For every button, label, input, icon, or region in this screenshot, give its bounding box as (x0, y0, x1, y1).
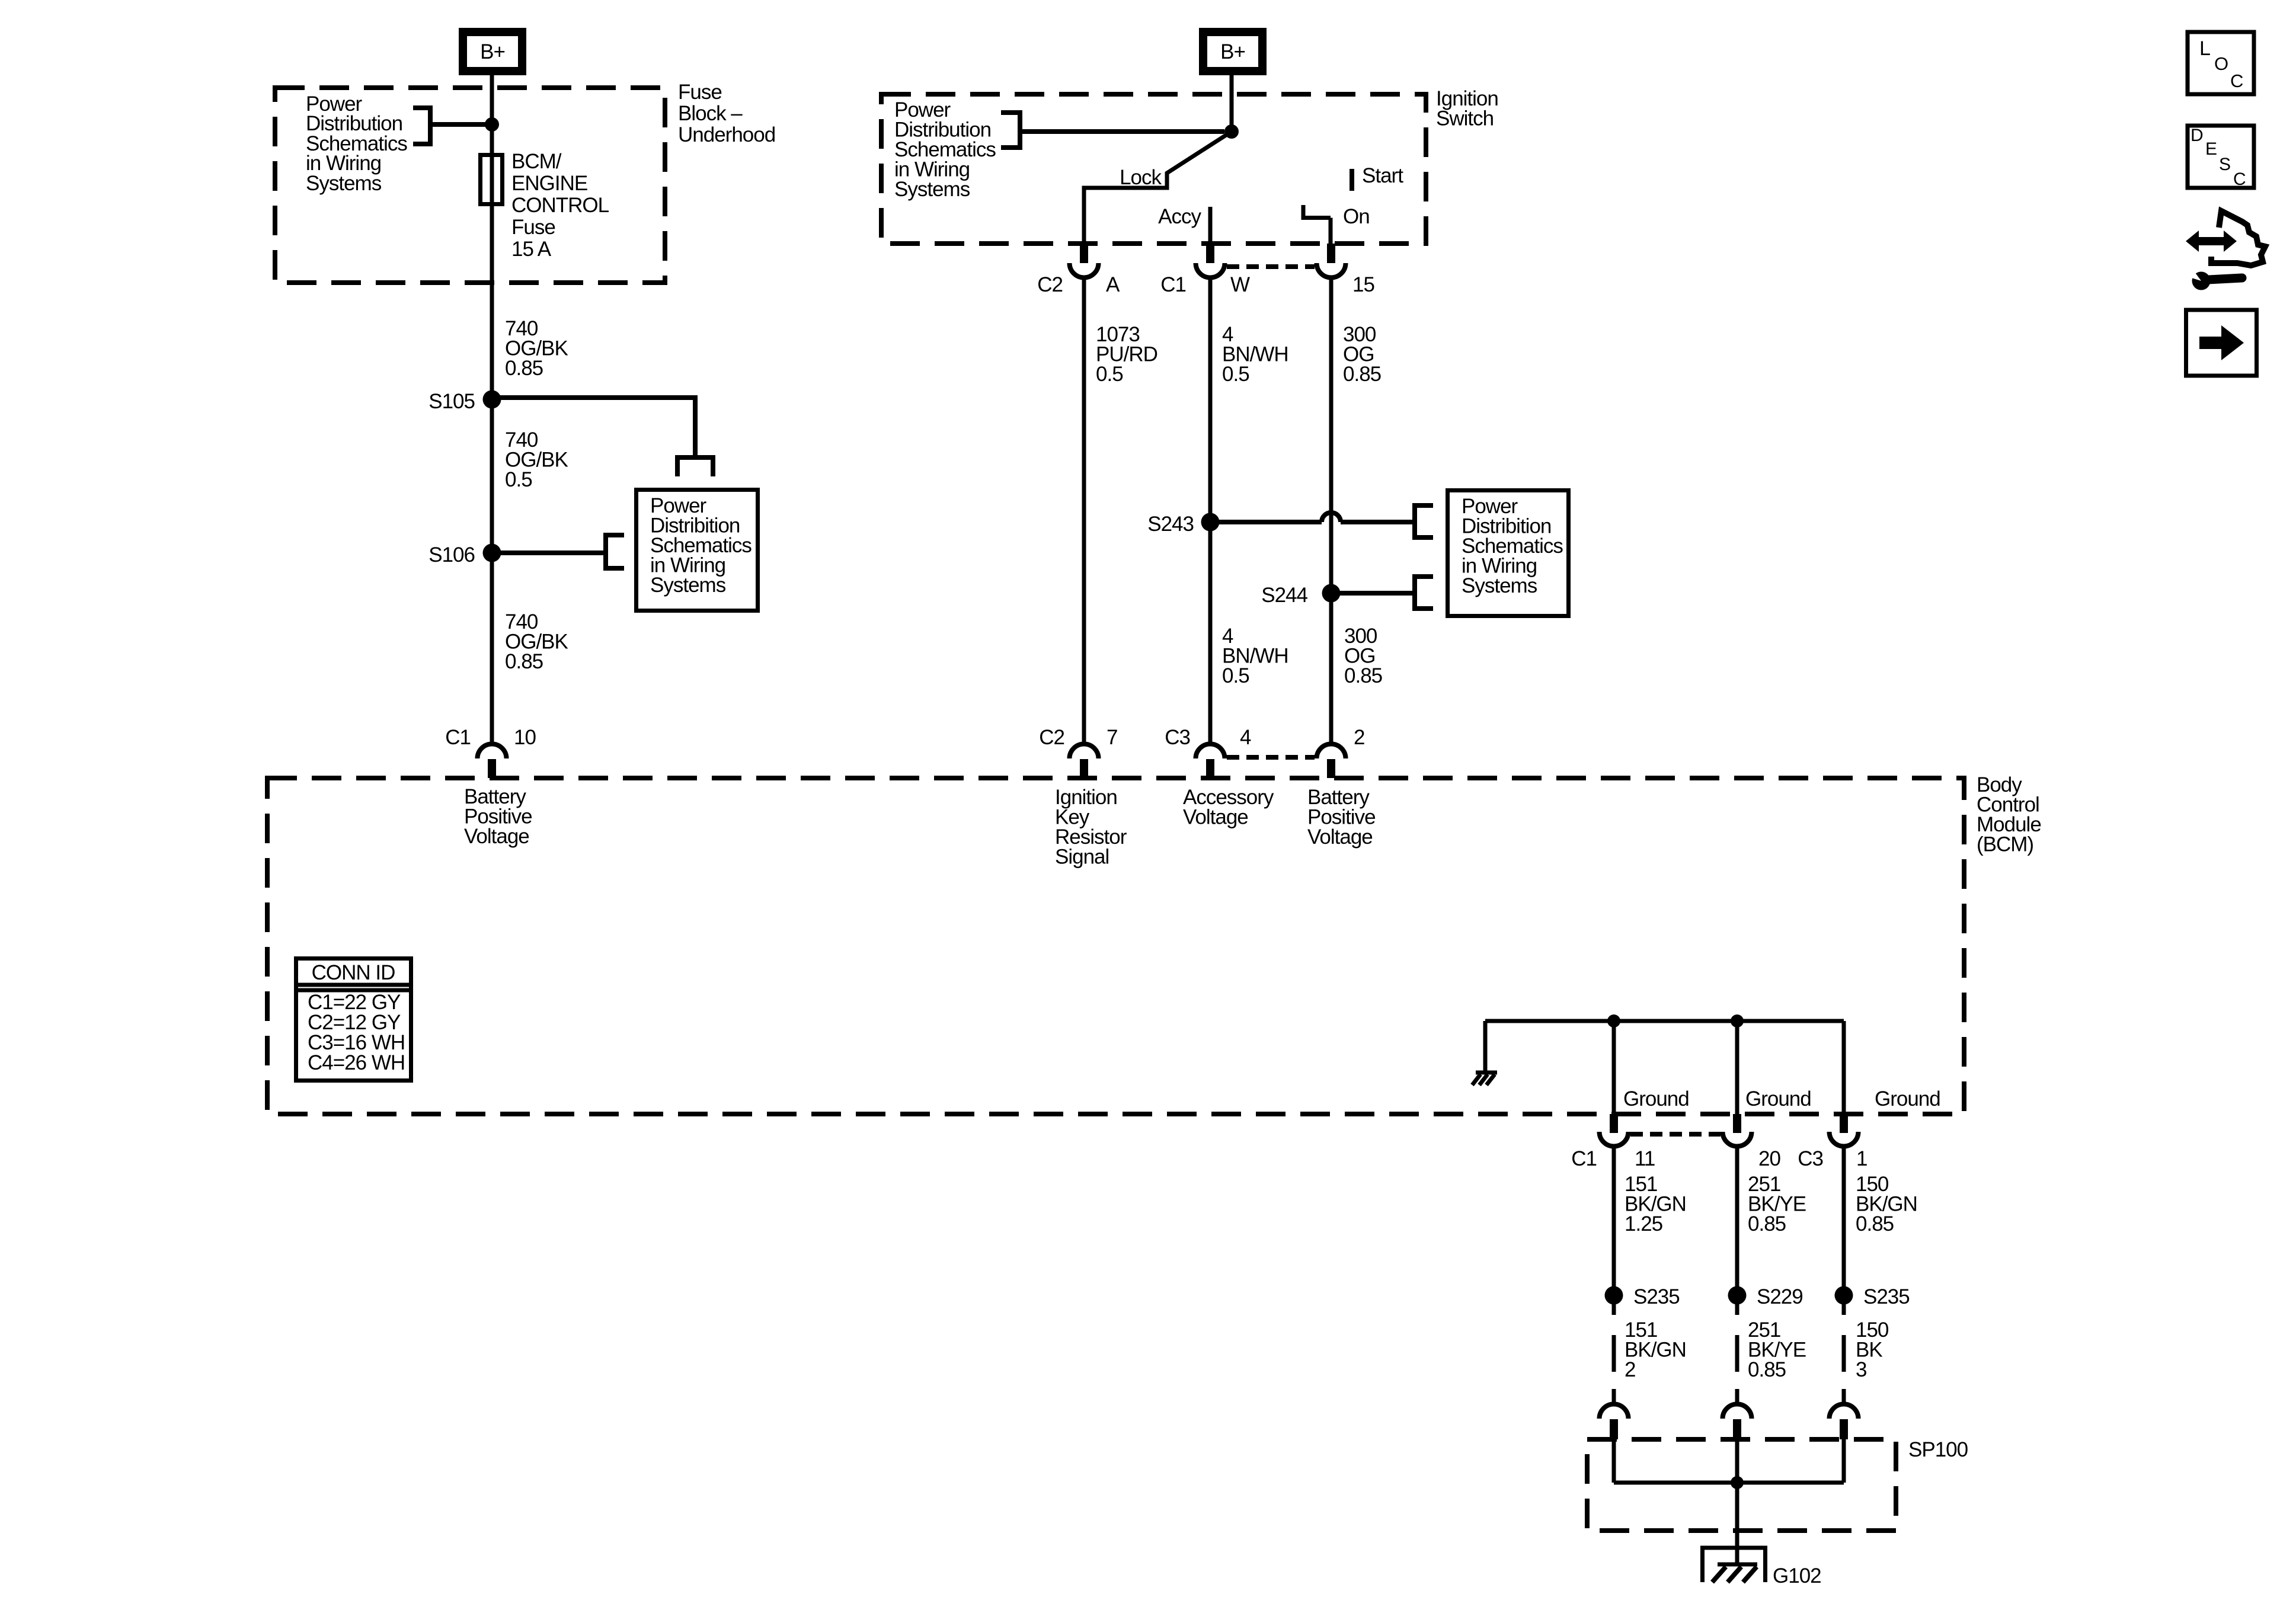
fuse BCM/ENGINE CONTROL 15 A (481, 155, 503, 204)
wire: S105 branch to power distribution (492, 398, 715, 476)
svg-text:0.5: 0.5 (505, 468, 532, 491)
svg-text:0.5: 0.5 (1096, 363, 1123, 386)
contact Accy (1208, 207, 1213, 244)
svg-text:1: 1 (1856, 1147, 1867, 1170)
svg-text:1.25: 1.25 (1625, 1212, 1662, 1235)
label Accessory Voltage (1183, 786, 1274, 829)
icon LOC box (2188, 32, 2254, 94)
wire label 4 BN/WH 0.5 (lower) (1222, 625, 1288, 687)
svg-text:On: On (1343, 205, 1370, 228)
svg-text:Systems: Systems (650, 574, 726, 597)
svg-text:S243: S243 (1147, 513, 1194, 536)
connector C3 pin 4 (BCM entry) (1165, 726, 1251, 778)
wire: S229 to SP100 (broken) (1735, 1304, 1739, 1404)
connector pin 2 (BCM entry) (1317, 726, 1365, 778)
wire label 151 BK/GN 2 (1625, 1318, 1686, 1381)
connector C1 pin W (ignition exit) (1160, 244, 1250, 296)
icon DESC box (2188, 126, 2254, 189)
wire: ground 1 (1612, 1021, 1616, 1114)
label Fuse Block - Underhood (678, 81, 775, 146)
svg-text:Underhood: Underhood (678, 123, 775, 146)
splice S229 (1728, 1286, 1747, 1305)
wire: S243 to power distribution (with hop) (1210, 503, 1433, 540)
wire label 150 BK/GN 0.85 (1856, 1173, 1917, 1235)
svg-text:B+: B+ (1220, 40, 1245, 63)
node: SP100 junction (1731, 1476, 1744, 1489)
svg-text:4: 4 (1240, 726, 1251, 749)
wire: S106 branch (492, 533, 624, 571)
svg-text:S229: S229 (1757, 1285, 1803, 1308)
svg-text:SP100: SP100 (1908, 1438, 1968, 1461)
svg-text:C2: C2 (1039, 726, 1064, 749)
svg-text:Systems: Systems (894, 178, 970, 201)
connector C2 pin A (ignition exit) (1037, 244, 1120, 296)
wire: BCM internal ground bus (1485, 1021, 1844, 1114)
svg-text:Accy: Accy (1158, 205, 1201, 228)
svg-text:B+: B+ (480, 40, 505, 63)
dashed connector link (ignition) (1227, 264, 1315, 269)
svg-text:20: 20 (1758, 1147, 1780, 1170)
wire label 300 OG 0.85 (lower) (1344, 625, 1382, 687)
wire: S235 to SP100 (broken) (1612, 1304, 1616, 1404)
svg-text:Voltage: Voltage (464, 825, 529, 848)
node: junction above fuse (485, 117, 499, 132)
svg-text:Switch: Switch (1436, 107, 1494, 130)
connector C1 pin 10 (BCM entry) (445, 726, 536, 778)
svg-text:S: S (2219, 155, 2231, 174)
svg-text:C3: C3 (1165, 726, 1190, 749)
svg-text:O: O (2214, 53, 2228, 74)
wire label 740 OG/BK 0.5 (505, 428, 568, 491)
svg-text:Ground: Ground (1623, 1087, 1689, 1110)
connector pin 15 (ignition exit) (1317, 244, 1374, 296)
svg-text:2: 2 (1354, 726, 1364, 749)
box: Power Distribition Schematics (left) (637, 490, 758, 611)
wire: B+ to BCM C1 pin 10 (490, 75, 494, 744)
svg-text:A: A (1106, 273, 1120, 296)
svg-text:Voltage: Voltage (1307, 825, 1373, 849)
connector SP100 entry 3 (1830, 1404, 1859, 1440)
connector C1 pin 11 (BCM exit) (1571, 1114, 1655, 1170)
splice S106 (483, 544, 501, 562)
svg-text:C4=26 WH: C4=26 WH (308, 1051, 405, 1074)
svg-text:W: W (1230, 273, 1250, 296)
svg-text:11: 11 (1635, 1147, 1655, 1170)
wire: S235r to SP100 (broken) (1842, 1304, 1846, 1404)
svg-text:Ground: Ground (1745, 1087, 1811, 1110)
wire: ground 2 (1735, 1021, 1739, 1114)
svg-text:(BCM): (BCM) (1977, 833, 2033, 856)
connector C2 pin 7 (BCM entry) (1039, 726, 1117, 778)
label Battery Positive Voltage (left) (464, 785, 532, 848)
svg-text:15: 15 (1352, 273, 1374, 296)
splice S235 (right) (1835, 1286, 1853, 1305)
svg-text:S105: S105 (428, 390, 475, 413)
CONN ID table (294, 959, 413, 1081)
svg-text:C1: C1 (1571, 1147, 1597, 1170)
svg-text:Fuse: Fuse (511, 216, 555, 239)
svg-text:0.85: 0.85 (1748, 1358, 1786, 1381)
node: ground bus junction 2 (1731, 1014, 1744, 1028)
wire label 740 OG/BK 0.85 (lower) (505, 610, 568, 673)
svg-text:Systems: Systems (306, 172, 382, 195)
label Body Control Module (BCM) (1977, 773, 2041, 856)
label Power Distribution Schematics in Wiring Systems (fuse block) (306, 92, 407, 195)
connector SP100 entry 1 (1600, 1404, 1629, 1440)
svg-text:15 A: 15 A (511, 238, 552, 261)
wire label 4 BN/WH 0.5 (upper) (1222, 323, 1288, 386)
label Ignition Switch (1436, 87, 1498, 130)
wire label 151 BK/GN 1.25 (1625, 1173, 1686, 1235)
ground (BCM internal) (1472, 1073, 1497, 1085)
BCM dashed box (267, 778, 1964, 1114)
svg-text:D: D (2191, 126, 2204, 145)
label Battery Positive Voltage (middle) (1307, 786, 1376, 849)
label BCM/ENGINE CONTROL Fuse 15 A (511, 150, 609, 261)
bracket to fuse block power distribution (413, 105, 486, 146)
svg-text:E: E (2205, 139, 2217, 159)
connector SP100 entry 2 (1723, 1404, 1752, 1440)
svg-text:ENGINE: ENGINE (511, 172, 587, 195)
svg-text:Block –: Block – (678, 102, 743, 125)
wire label 150 BK 3 (1856, 1318, 1889, 1381)
svg-text:C: C (2230, 71, 2243, 91)
svg-text:BCM/: BCM/ (511, 150, 562, 173)
svg-text:7: 7 (1107, 726, 1117, 749)
svg-text:S106: S106 (428, 543, 475, 566)
connector C3 pin 1 (BCM exit) (1798, 1114, 1867, 1170)
wire label 1073 PU/RD 0.5 (1096, 323, 1157, 386)
node: ignition switch common (1224, 124, 1239, 139)
svg-text:Signal: Signal (1055, 846, 1109, 869)
svg-text:S235: S235 (1633, 1285, 1680, 1308)
switch arm to Lock (1084, 132, 1232, 244)
wire: 251 to S229 (1735, 1145, 1739, 1287)
wire label 251 BK/YE 0.85 (upper) (1748, 1173, 1806, 1235)
dashed connector link (BCM entry) (1227, 755, 1315, 760)
svg-text:0.5: 0.5 (1222, 363, 1249, 386)
power symbol B+ (left) (463, 32, 522, 71)
wire: battery positive 300 OG (1329, 277, 1334, 744)
wire: SP100 to G102 (1735, 1483, 1739, 1565)
label Power Distribution Schematics in Wiring Systems (ignition) (894, 98, 996, 201)
ignition switch dashed box (881, 94, 1426, 244)
svg-text:C3: C3 (1798, 1147, 1823, 1170)
splice S244 (1322, 584, 1341, 603)
svg-text:S244: S244 (1261, 584, 1307, 607)
splice pack SP100 dashed box (1587, 1439, 1896, 1531)
ground G102 (1703, 1548, 1821, 1587)
svg-text:Fuse: Fuse (678, 81, 722, 104)
wire: 151 to S235 (1612, 1145, 1616, 1287)
icon wiring repair (arrow, connector outline, wrench) (2182, 211, 2265, 290)
splice S235 (left) (1605, 1286, 1623, 1305)
splice S105 (483, 391, 501, 409)
bracket to ignition power distribution (1001, 110, 1224, 150)
svg-text:0.85: 0.85 (1856, 1212, 1894, 1235)
dashed connector link (BCM exit) (1630, 1132, 1721, 1137)
label Ignition Key Resistor Signal (1055, 786, 1127, 869)
wire: SP100 internal bus (1614, 1439, 1844, 1483)
svg-text:Systems: Systems (1462, 574, 1537, 597)
svg-text:0.85: 0.85 (505, 650, 543, 673)
svg-text:S235: S235 (1863, 1285, 1910, 1308)
svg-text:3: 3 (1856, 1358, 1866, 1381)
svg-text:Lock: Lock (1120, 166, 1162, 189)
svg-text:G102: G102 (1773, 1564, 1821, 1587)
icon forward arrow box (2186, 310, 2257, 376)
svg-text:2: 2 (1625, 1358, 1635, 1381)
connector pin 20 (BCM exit) (1723, 1114, 1781, 1170)
svg-text:Voltage: Voltage (1183, 806, 1248, 829)
node: ground bus junction 1 (1607, 1014, 1620, 1028)
splice S243 (1201, 513, 1220, 532)
wire label 251 BK/YE 0.85 (lower) (1748, 1318, 1806, 1381)
wire: 150 to S235 (1842, 1145, 1846, 1287)
svg-text:CONTROL: CONTROL (511, 194, 609, 217)
svg-text:0.85: 0.85 (1343, 363, 1381, 386)
svg-text:C2: C2 (1037, 273, 1063, 296)
svg-text:10: 10 (514, 726, 536, 749)
svg-text:0.85: 0.85 (505, 357, 543, 380)
svg-text:Ground: Ground (1875, 1087, 1940, 1110)
svg-text:C: C (2233, 169, 2246, 189)
box: Power Distribition Schematics (right) (1448, 491, 1569, 616)
fuse block underhood dashed box (275, 88, 665, 283)
svg-text:C1: C1 (1160, 273, 1186, 296)
svg-text:0.85: 0.85 (1748, 1212, 1786, 1235)
wire label 300 OG 0.85 (upper) (1343, 323, 1381, 386)
contact On (1303, 205, 1331, 244)
wire: S244 to power distribution (1331, 574, 1433, 611)
svg-text:0.85: 0.85 (1344, 664, 1382, 687)
wire: accessory voltage (1208, 277, 1213, 744)
svg-text:C1: C1 (445, 726, 471, 749)
contact Start (1350, 169, 1354, 191)
svg-text:CONN ID: CONN ID (312, 961, 395, 984)
wire: B+ into ignition switch (1230, 75, 1234, 132)
svg-text:L: L (2199, 37, 2211, 60)
power symbol B+ (middle) (1203, 32, 1262, 71)
svg-text:Start: Start (1362, 164, 1403, 187)
wire label 740 OG/BK 0.85 (upper) (505, 317, 568, 380)
wire: ignition key resistor signal (1082, 277, 1086, 744)
svg-text:0.5: 0.5 (1222, 664, 1249, 687)
